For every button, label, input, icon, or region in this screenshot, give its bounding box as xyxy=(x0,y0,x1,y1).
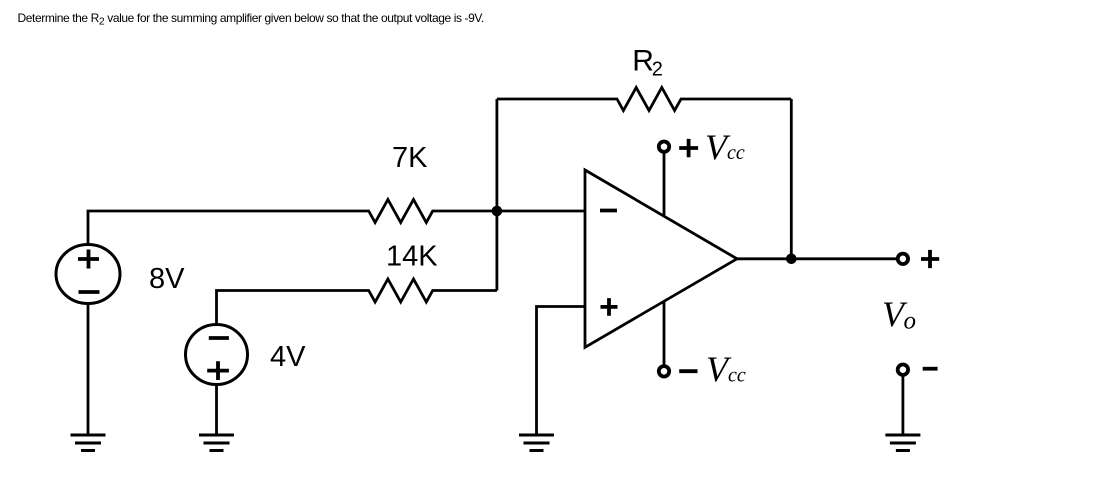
svg-text:4V: 4V xyxy=(270,341,306,373)
svg-text:8V: 8V xyxy=(149,263,185,295)
svg-text:cc: cc xyxy=(728,364,746,386)
svg-text:cc: cc xyxy=(727,142,745,164)
svg-text:2: 2 xyxy=(652,59,663,81)
svg-text:7K: 7K xyxy=(392,142,428,174)
svg-text:R: R xyxy=(632,44,654,77)
svg-text:o: o xyxy=(904,308,917,335)
svg-text:14K: 14K xyxy=(386,241,438,273)
